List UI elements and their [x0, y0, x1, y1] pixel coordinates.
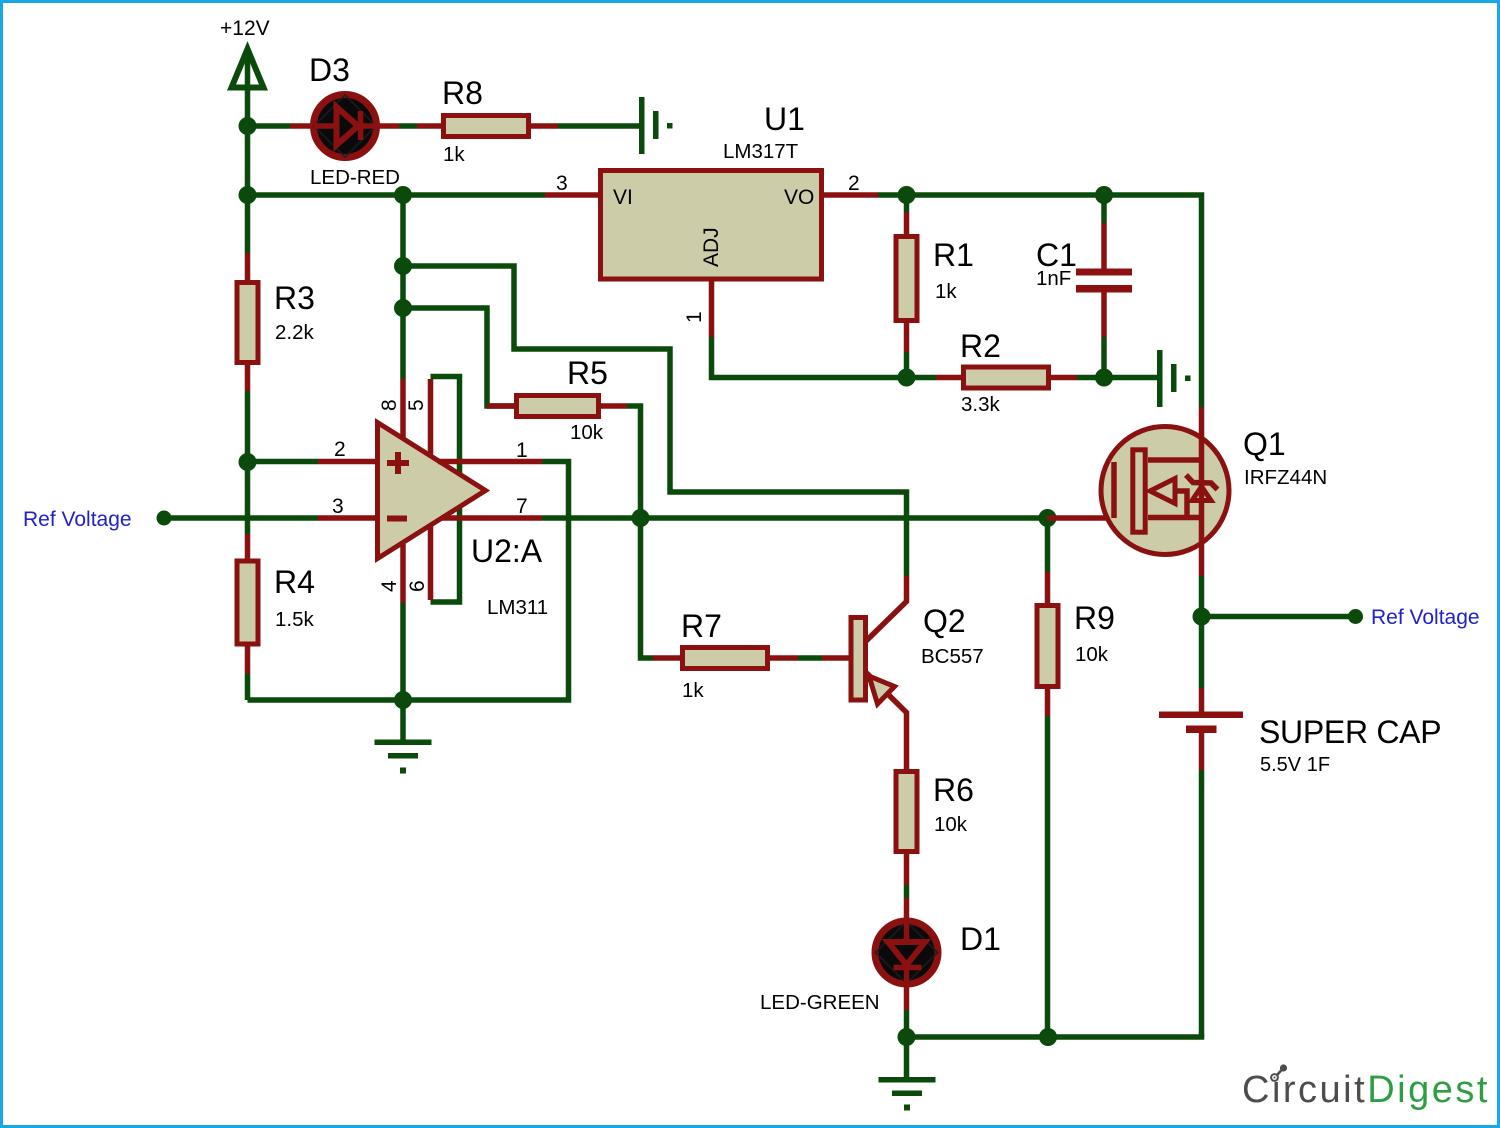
resistor R8: [417, 116, 558, 137]
wire from +12V node to D3: [248, 123, 291, 129]
node J8 (divider to pin2): [239, 453, 257, 471]
svg-text:2: 2: [334, 438, 346, 461]
wire Q1 source to ref node: [1199, 576, 1205, 617]
wire pin1 down and ground rail under U2: [248, 462, 569, 701]
node J5 (C1 top): [1095, 186, 1113, 204]
svg-text:R7: R7: [681, 608, 722, 644]
svg-text:Ref Voltage: Ref Voltage: [1371, 606, 1480, 629]
svg-text:2: 2: [848, 172, 860, 195]
wire D1 to bottom rail: [904, 1010, 910, 1037]
LED D1: [875, 920, 938, 1010]
wire pin4 down to ground rail: [400, 603, 406, 700]
svg-text:3: 3: [556, 172, 568, 195]
node J9: [394, 257, 412, 275]
svg-text:R1: R1: [933, 237, 974, 273]
svg-text:CircuitDigest: CircuitDigest: [1242, 1069, 1490, 1111]
wire pin2 node to U2: [248, 459, 319, 465]
svg-text:U2:A: U2:A: [471, 533, 543, 569]
terminal Ref Voltage (left): [157, 511, 172, 526]
svg-text:+12V: +12V: [220, 17, 270, 40]
ground (right facing) at R8: [639, 97, 673, 154]
wire output node to Q1 gate node: [641, 515, 1048, 521]
svg-text:1k: 1k: [935, 280, 957, 303]
wire pin8 column from top bus: [400, 195, 406, 379]
pin 3 stub of U1: [545, 192, 598, 198]
pin stub Q2 base: [822, 655, 850, 661]
svg-text:R2: R2: [960, 328, 1001, 364]
svg-text:R9: R9: [1074, 600, 1115, 636]
transistor Q2 BC557: [851, 576, 907, 769]
svg-text:R5: R5: [567, 355, 608, 391]
wire R7 to Q2 base: [798, 655, 822, 661]
wire vertical +12V node down to bus node: [245, 126, 251, 195]
pin 4 stub of U2: [400, 544, 406, 603]
svg-text:Q1: Q1: [1243, 426, 1286, 462]
node J7 (C1 bottom): [1095, 369, 1113, 387]
node J13 (bottom rail left): [898, 1028, 916, 1046]
svg-text:1.5k: 1.5k: [275, 608, 314, 631]
pin 2 stub of U1 (VO): [823, 192, 878, 198]
pin 1 stub of U2 (out to gnd): [438, 459, 542, 465]
svg-text:LM311: LM311: [487, 596, 548, 619]
wire J9 to Q2 collector run: [403, 266, 907, 576]
bottom rail: [907, 1034, 1202, 1037]
wire D3 to R8: [399, 123, 417, 129]
wire top bus to U1 VI: [248, 192, 546, 198]
pin 7 stub of U2 (output): [441, 515, 542, 521]
resistor R3: [237, 195, 258, 462]
wire output to node: [542, 515, 641, 521]
node J2 (bus left): [239, 186, 257, 204]
svg-text:BC557: BC557: [921, 645, 984, 668]
node J16 (ref voltage right): [1193, 608, 1211, 626]
node J1 (top left): [239, 117, 257, 135]
svg-text:3: 3: [332, 495, 344, 518]
battery SUPER CAP: [1159, 617, 1243, 1038]
svg-text:Q2: Q2: [923, 603, 966, 639]
terminal Ref Voltage (right): [1348, 609, 1363, 624]
wire ref voltage to U2 pin3: [164, 515, 318, 521]
resistor R6: [896, 772, 917, 921]
resistor R9: [1037, 518, 1058, 1037]
ground under D1: [879, 1077, 936, 1111]
wire J10 to R5 left: [403, 308, 514, 406]
svg-text:R6: R6: [933, 772, 974, 808]
svg-text:4: 4: [378, 580, 401, 592]
svg-text:ADJ: ADJ: [700, 227, 723, 267]
node J14 (R9 bottom): [1039, 1028, 1057, 1046]
pin 8 stub of U2: [400, 379, 406, 440]
svg-text:U1: U1: [764, 101, 805, 137]
node J6 (R1 bottom / R2 left): [898, 369, 916, 387]
svg-text:IRFZ44N: IRFZ44N: [1244, 466, 1327, 489]
wire C1 bottom to ground: [1104, 375, 1157, 381]
svg-text:5: 5: [405, 399, 428, 411]
svg-text:10k: 10k: [934, 813, 968, 836]
capacitor C1: [1076, 195, 1132, 378]
resistor R1: [896, 195, 917, 378]
svg-text:LM317T: LM317T: [723, 140, 799, 163]
svg-text:7: 7: [516, 495, 528, 518]
svg-text:VO: VO: [784, 186, 814, 209]
pin 3 stub of U2: [318, 515, 376, 521]
wire balance loop pins 5-6: [431, 377, 460, 603]
ground under U2: [375, 740, 432, 774]
svg-text:8: 8: [378, 399, 401, 411]
wire ADJ down and right to R2 rail: [712, 337, 907, 378]
wire R5 right down to output node and R7: [627, 406, 653, 658]
logo CircuitDigest: [1242, 1064, 1490, 1111]
op-amp/regulator U1 LM317T box: [601, 171, 822, 280]
wire VO to top rail and corner down to Q1 drain: [878, 195, 1202, 407]
wire to right terminal: [1202, 614, 1356, 620]
svg-text:SUPER CAP: SUPER CAP: [1259, 714, 1441, 750]
ground (right facing) at R2/C1: [1157, 350, 1191, 407]
svg-text:6: 6: [406, 580, 429, 592]
svg-text:2.2k: 2.2k: [275, 321, 314, 344]
node J4 (VO/R1): [898, 186, 916, 204]
svg-text:R8: R8: [442, 75, 483, 111]
node J12: [394, 691, 412, 709]
svg-text:D3: D3: [309, 52, 350, 88]
resistor R4: [237, 534, 258, 700]
node J11 (output node): [632, 509, 650, 527]
svg-text:1nF: 1nF: [1036, 267, 1071, 290]
pin 5 stub of U2: [428, 379, 434, 458]
svg-text:R4: R4: [274, 564, 315, 600]
node J3: [394, 186, 412, 204]
svg-text:1: 1: [516, 439, 528, 462]
svg-text:LED-GREEN: LED-GREEN: [760, 991, 880, 1014]
pin 6 stub of U2: [428, 524, 434, 600]
svg-text:5.5V 1F: 5.5V 1F: [1260, 754, 1330, 776]
power +12V symbol: [232, 49, 264, 126]
svg-text:10k: 10k: [1075, 643, 1109, 666]
node J15 (gate/R9 top): [1039, 509, 1057, 527]
svg-text:D1: D1: [960, 921, 1001, 957]
svg-text:LED-RED: LED-RED: [310, 166, 400, 189]
LED D3: [290, 95, 399, 158]
svg-text:Ref Voltage: Ref Voltage: [23, 508, 132, 531]
wire to ground under D1: [904, 1037, 910, 1077]
wire divider down through ref line to R4: [245, 462, 251, 534]
svg-text:R3: R3: [274, 280, 315, 316]
resistor R5: [487, 396, 627, 417]
svg-text:1: 1: [683, 311, 706, 323]
transistor Q1 IRFZ44N mosfet: [1101, 407, 1229, 576]
resistor R2: [907, 367, 1105, 388]
svg-text:1k: 1k: [682, 679, 704, 702]
svg-text:1k: 1k: [443, 143, 465, 166]
node J10: [394, 299, 412, 317]
pin 2 stub of U2: [318, 459, 376, 465]
wire node to ground: [400, 700, 406, 740]
resistor R7: [653, 648, 798, 669]
wire R8 to ground: [558, 123, 639, 129]
svg-text:3.3k: 3.3k: [961, 393, 1000, 416]
svg-text:VI: VI: [613, 186, 633, 209]
svg-text:10k: 10k: [570, 421, 604, 444]
pin 1 stub of U1 (ADJ): [709, 281, 715, 337]
op-amp U2:A LM311: [378, 423, 486, 559]
pin stub Q1 gate: [1048, 515, 1117, 521]
